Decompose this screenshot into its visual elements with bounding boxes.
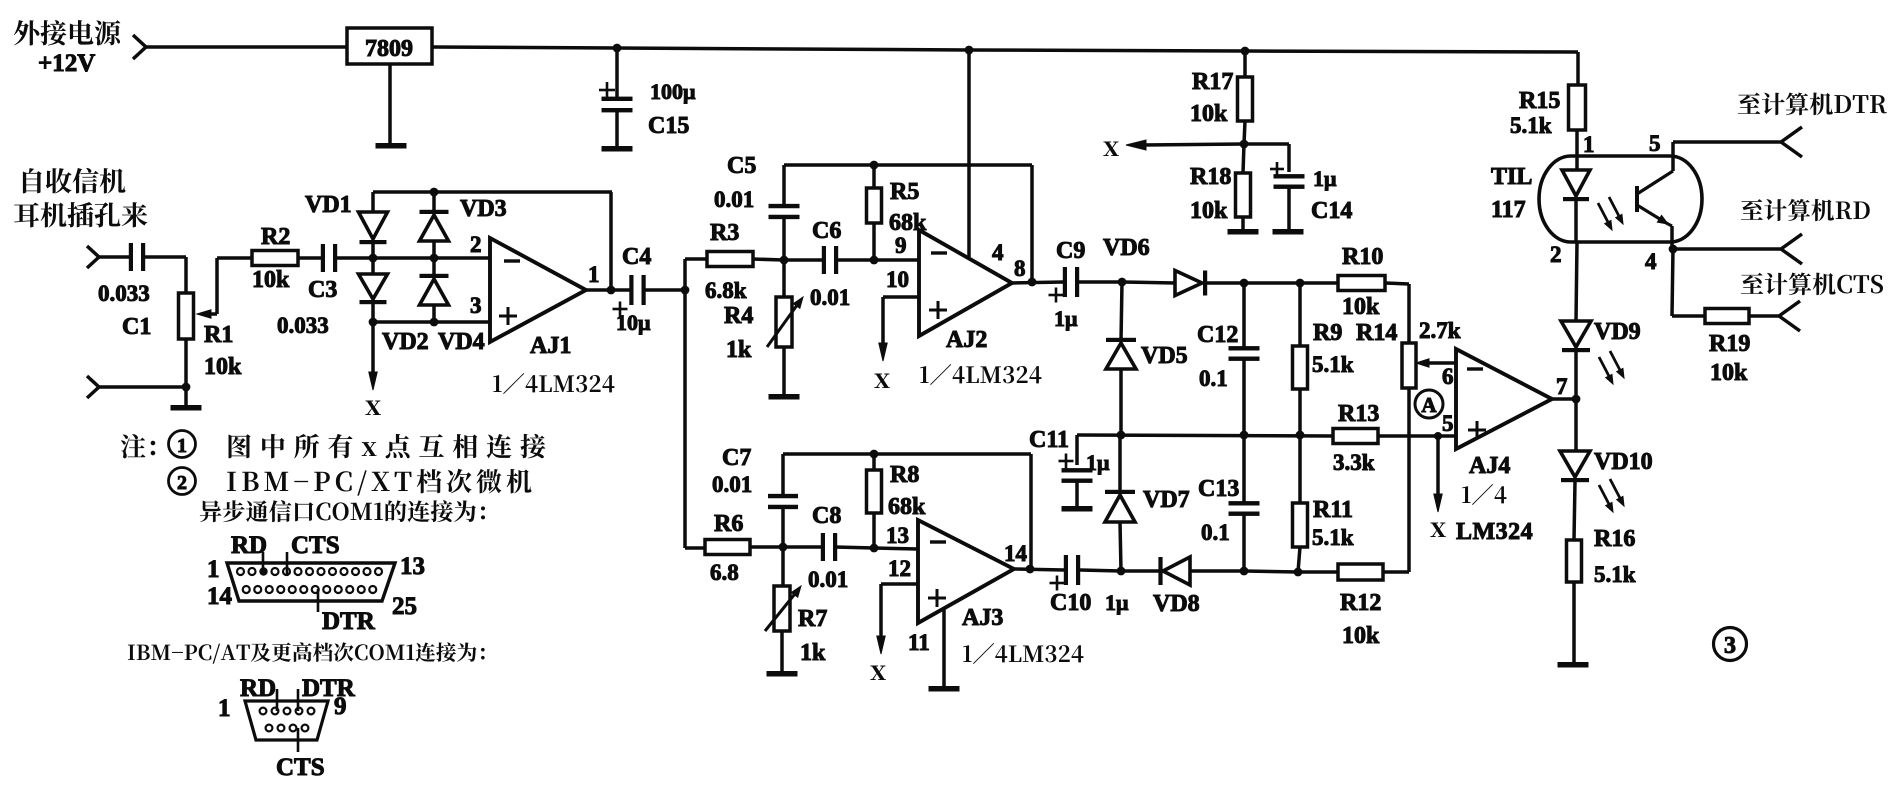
- svg-text:R6: R6: [714, 511, 743, 537]
- svg-text:AJ2: AJ2: [946, 327, 987, 353]
- svg-text:5: 5: [1442, 411, 1454, 436]
- svg-text:68k: 68k: [888, 494, 926, 520]
- svg-text:10k: 10k: [1342, 623, 1380, 649]
- svg-text:VD10: VD10: [1594, 449, 1653, 475]
- svg-text:100μ: 100μ: [650, 79, 696, 104]
- svg-text:13: 13: [400, 553, 425, 580]
- svg-text:5.1k: 5.1k: [1312, 352, 1354, 377]
- svg-text:5.1k: 5.1k: [1594, 562, 1636, 587]
- svg-text:5.1k: 5.1k: [1510, 113, 1552, 138]
- svg-text:R9: R9: [1313, 320, 1342, 346]
- svg-text:C6: C6: [812, 218, 841, 244]
- svg-text:C9: C9: [1056, 238, 1085, 264]
- svg-text:C12: C12: [1197, 322, 1238, 348]
- svg-text:4: 4: [992, 240, 1004, 265]
- svg-text:5.1k: 5.1k: [1312, 525, 1354, 550]
- svg-text:C10: C10: [1050, 590, 1091, 616]
- svg-text:C5: C5: [727, 153, 756, 179]
- svg-text:10: 10: [886, 267, 909, 292]
- svg-text:VD7: VD7: [1143, 487, 1190, 513]
- svg-text:3: 3: [470, 293, 482, 318]
- svg-text:CTS: CTS: [291, 532, 340, 559]
- svg-text:VD2: VD2: [382, 329, 429, 355]
- svg-text:1: 1: [588, 262, 600, 287]
- svg-text:DTR: DTR: [322, 608, 376, 635]
- svg-text:R4: R4: [724, 303, 753, 329]
- svg-text:R11: R11: [1313, 497, 1353, 523]
- svg-text:DTR: DTR: [302, 675, 356, 702]
- svg-text:3: 3: [1724, 633, 1736, 659]
- svg-text:C7: C7: [722, 445, 751, 471]
- svg-text:AJ3: AJ3: [962, 605, 1003, 631]
- svg-text:25: 25: [392, 593, 417, 620]
- svg-text:R1: R1: [204, 322, 233, 348]
- svg-text:R3: R3: [710, 220, 739, 246]
- svg-text:A: A: [1421, 393, 1437, 417]
- svg-text:10k: 10k: [1710, 360, 1748, 386]
- svg-text:2: 2: [470, 232, 482, 257]
- svg-text:RD: RD: [240, 675, 276, 702]
- svg-text:VD1: VD1: [305, 192, 352, 218]
- svg-text:117: 117: [1491, 197, 1526, 223]
- svg-text:C15: C15: [648, 113, 689, 139]
- svg-text:C3: C3: [308, 277, 337, 303]
- svg-text:0.01: 0.01: [714, 187, 754, 212]
- svg-text:AJ4: AJ4: [1469, 453, 1510, 479]
- svg-text:1: 1: [218, 695, 231, 722]
- svg-text:RD: RD: [231, 532, 267, 559]
- svg-text:R10: R10: [1342, 244, 1383, 270]
- svg-text:13: 13: [886, 523, 909, 548]
- svg-text:12: 12: [888, 556, 911, 581]
- svg-text:6.8k: 6.8k: [705, 278, 747, 303]
- svg-text:1: 1: [177, 435, 187, 457]
- svg-text:5: 5: [1649, 131, 1661, 156]
- svg-text:0.033: 0.033: [98, 281, 150, 306]
- svg-text:R15: R15: [1519, 88, 1560, 114]
- svg-text:VD3: VD3: [460, 196, 507, 222]
- svg-text:1: 1: [207, 556, 220, 583]
- svg-text:TIL: TIL: [1491, 164, 1532, 190]
- svg-text:11: 11: [908, 630, 930, 655]
- svg-text:VD6: VD6: [1103, 235, 1150, 261]
- svg-text:R13: R13: [1338, 401, 1379, 427]
- svg-text:14: 14: [207, 583, 233, 610]
- svg-text:CTS: CTS: [276, 754, 325, 781]
- svg-text:6.8: 6.8: [710, 560, 739, 585]
- svg-text:R8: R8: [890, 462, 919, 488]
- svg-text:R17: R17: [1192, 69, 1233, 95]
- svg-text:4: 4: [1645, 249, 1657, 274]
- svg-text:R19: R19: [1709, 331, 1750, 357]
- svg-text:1k: 1k: [800, 640, 826, 666]
- svg-text:10k: 10k: [1190, 198, 1228, 224]
- svg-text:C4: C4: [622, 244, 651, 270]
- svg-text:VD8: VD8: [1153, 591, 1200, 617]
- svg-text:10k: 10k: [204, 354, 242, 380]
- svg-text:1μ: 1μ: [1054, 306, 1078, 331]
- svg-text:9: 9: [334, 693, 347, 720]
- svg-text:1μ: 1μ: [1086, 450, 1110, 475]
- svg-text:0.01: 0.01: [712, 472, 752, 497]
- svg-text:C14: C14: [1311, 198, 1352, 224]
- svg-text:R2: R2: [261, 224, 290, 250]
- svg-text:10μ: 10μ: [616, 310, 651, 335]
- svg-text:2.7k: 2.7k: [1419, 318, 1461, 343]
- svg-text:R7: R7: [798, 606, 827, 632]
- svg-text:C11: C11: [1029, 427, 1069, 453]
- svg-text:2: 2: [1550, 242, 1562, 267]
- svg-text:C8: C8: [812, 503, 841, 529]
- svg-text:10k: 10k: [1190, 101, 1228, 127]
- svg-text:R5: R5: [890, 179, 919, 205]
- svg-text:VD5: VD5: [1141, 343, 1188, 369]
- svg-text:AJ1: AJ1: [530, 333, 571, 359]
- svg-text:0.01: 0.01: [810, 285, 850, 310]
- svg-text:C1: C1: [122, 314, 151, 340]
- svg-text:R12: R12: [1340, 590, 1381, 616]
- svg-text:7: 7: [1556, 374, 1568, 399]
- svg-text:6: 6: [1442, 364, 1454, 389]
- svg-text:8: 8: [1014, 256, 1026, 281]
- svg-text:VD4: VD4: [438, 329, 485, 355]
- svg-text:R18: R18: [1190, 164, 1231, 190]
- svg-text:9: 9: [895, 233, 907, 258]
- svg-text:LM324: LM324: [1456, 519, 1533, 545]
- svg-text:10k: 10k: [1342, 294, 1380, 320]
- svg-text:14: 14: [1004, 541, 1028, 566]
- svg-text:0.1: 0.1: [1199, 366, 1228, 391]
- svg-text:VD9: VD9: [1594, 319, 1641, 345]
- svg-text:1μ: 1μ: [1105, 590, 1129, 615]
- svg-text:0.01: 0.01: [808, 567, 848, 592]
- svg-text:0.033: 0.033: [277, 313, 329, 338]
- svg-text:C13: C13: [1198, 476, 1239, 502]
- svg-text:3.3k: 3.3k: [1333, 450, 1375, 475]
- svg-text:1μ: 1μ: [1313, 166, 1337, 191]
- svg-text:R14: R14: [1356, 320, 1397, 346]
- svg-text:10k: 10k: [252, 267, 290, 293]
- svg-text:R16: R16: [1594, 526, 1635, 552]
- svg-text:0.1: 0.1: [1201, 520, 1230, 545]
- svg-text:+12V: +12V: [38, 50, 95, 77]
- svg-text:7809: 7809: [365, 36, 413, 62]
- svg-text:1: 1: [1583, 132, 1595, 157]
- svg-text:1k: 1k: [726, 337, 752, 363]
- svg-text:2: 2: [177, 472, 187, 494]
